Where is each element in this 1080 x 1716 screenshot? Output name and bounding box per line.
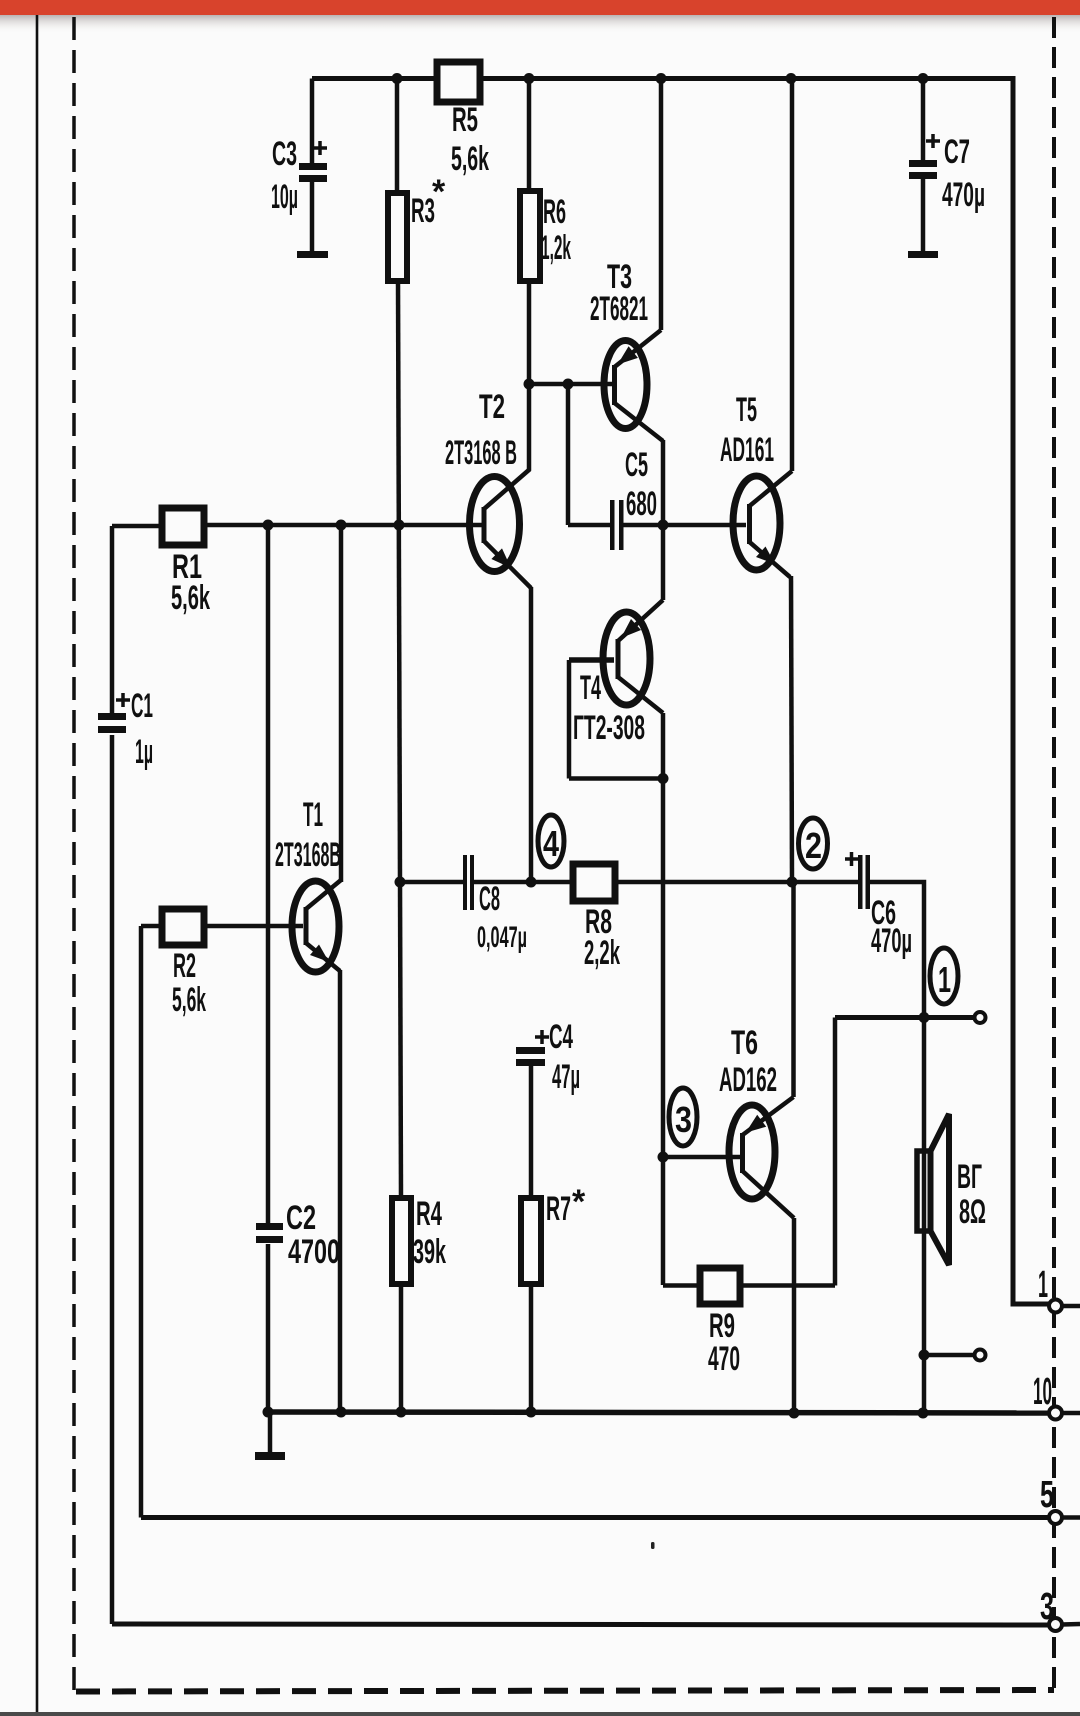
wire R9 right [741,1283,835,1288]
svg-text:T5: T5 [736,391,757,429]
svg-text:R2: R2 [173,947,196,985]
wire C8 right to R8 [474,880,572,885]
svg-text:*: * [572,1183,586,1221]
svg-text:R5: R5 [452,101,478,139]
pin 1 [1049,1300,1062,1313]
svg-text:3: 3 [675,1099,692,1140]
ground bar under C7 [908,251,938,258]
wire T4 emitter down [661,713,666,779]
svg-text:ГТ2-308: ГТ2-308 [573,709,645,747]
resistor R6 [520,191,540,281]
svg-text:R4: R4 [416,1195,442,1233]
node junction [524,379,535,390]
svg-text:C7: C7 [944,133,970,171]
wire R7 bottom [529,1284,534,1412]
capacitor C7 [909,160,937,167]
wire ground rail [268,1412,1049,1413]
wire R6 bottom to T3 base node [527,281,532,384]
svg-text:10: 10 [1033,1371,1052,1413]
svg-text:C4: C4 [549,1018,573,1056]
bottom dashed border [76,1690,1054,1692]
resistor R4 [392,1198,411,1284]
svg-text:*: * [432,173,446,211]
svg-text:T2: T2 [479,388,505,426]
svg-text:2T3168B: 2T3168B [275,836,341,874]
wire R4 bottom [399,1284,404,1412]
svg-text:470µ: 470µ [942,176,985,214]
node junction [526,877,537,888]
left solid border line [36,15,39,1716]
wire down to T6 base [661,779,666,1286]
wire C4 to R7 [529,1066,534,1199]
wire T2 collector up [527,384,532,470]
pin 3 [1049,1618,1062,1631]
wire speaker line [922,1018,927,1413]
wire R6 top [527,79,532,193]
stray mark [651,1542,655,1549]
resistor R1 [162,508,204,545]
capacitor C6 [858,855,863,909]
terminal [975,1350,986,1361]
svg-text:C8: C8 [479,880,500,918]
wire C8 left [400,880,464,885]
svg-text:T6: T6 [731,1024,758,1062]
red top bar [0,0,1080,15]
wire T4 collector up [661,525,666,600]
svg-text:1,2k: 1,2k [541,229,571,267]
svg-text:C3: C3 [272,135,297,173]
wire T5 emitter down [791,576,792,882]
node junction [919,1012,930,1023]
svg-text:ВГ: ВГ [957,1158,982,1196]
svg-text:T4: T4 [580,669,601,707]
svg-text:470µ: 470µ [871,922,912,960]
wire T1 emitter down [338,970,343,1412]
svg-text:2T3168 B: 2T3168 B [445,434,517,472]
svg-text:4700: 4700 [288,1233,340,1271]
svg-text:AD161: AD161 [720,431,774,469]
wire T1 collector up [339,525,344,882]
node junction [336,520,347,531]
svg-text:C2: C2 [286,1199,316,1237]
svg-text:AD162: AD162 [719,1061,777,1099]
wire C3 bottom [310,181,315,252]
node 4 label [538,815,564,867]
svg-text:2,2k: 2,2k [584,934,620,972]
wire top rail left segment [312,76,437,81]
wire C2 bottom [266,1244,271,1412]
wire T6 emitter down to rail [792,1218,797,1413]
svg-text:47µ: 47µ [552,1058,580,1096]
wire C1 top [110,526,115,716]
wire R8 right [616,880,858,885]
svg-text:5,6k: 5,6k [172,981,206,1019]
node junction [658,1152,669,1163]
node junction [919,1350,930,1361]
svg-text:3: 3 [1040,1586,1054,1628]
wire node3 corner to R9 [663,1283,699,1288]
wire T6 base [663,1155,740,1160]
svg-text:4: 4 [543,823,559,864]
svg-text:1: 1 [1038,1264,1048,1306]
wire C5 left [568,523,611,528]
wire rail right corner drop to pin 1 [1013,76,1049,1304]
left dashed border [72,17,76,1690]
node junction [563,379,574,390]
wire T3 collector up [659,79,664,331]
wire C1 down to pin 3 line [110,735,115,1624]
wire C2 top [266,525,271,1225]
svg-text:2: 2 [805,825,822,866]
resistor R5 [437,62,480,102]
resistor R9 [700,1268,740,1304]
svg-text:C1: C1 [131,687,153,725]
capacitor C1 [98,713,126,720]
svg-text:8Ω: 8Ω [959,1193,986,1231]
wire T4 base loop right [569,776,663,781]
wire C3 top [310,79,315,166]
svg-text:T1: T1 [303,796,323,834]
wire R3 top [395,79,400,195]
capacitor C5 [610,500,615,550]
svg-text:680: 680 [626,485,657,523]
pin 5 [1049,1511,1062,1524]
wire C7 top [921,79,926,163]
wire C5 right to T5 base [623,523,746,528]
wire top rail right segment [480,76,1013,81]
node junction [395,877,406,888]
wire T5 collector up [790,79,795,472]
speaker lower terminal wire [924,1353,974,1358]
wire pin3 line [112,1624,1049,1625]
node junction [787,877,798,888]
svg-text:C5: C5 [625,446,648,484]
svg-text:1µ: 1µ [135,733,153,771]
svg-text:5,6k: 5,6k [451,140,489,178]
wire output down to R9 [833,1018,838,1286]
svg-text:39k: 39k [413,1233,446,1271]
node 2 label [799,818,828,869]
wire pin5 line [141,1515,1049,1520]
node junction [658,520,669,531]
wire node4 to R4 [400,882,401,1198]
node junction [394,520,405,531]
wire branch down to C5 wire [566,384,571,525]
wire T3 emitter down [661,440,666,525]
wire C7 bottom [921,179,926,252]
resistor R2 [162,909,204,945]
wire R3 to node 4 [398,281,400,882]
svg-text:0,047µ: 0,047µ [477,921,527,954]
wire R2 left [141,924,161,929]
svg-text:5: 5 [1040,1474,1054,1516]
wire C6 right corner down [870,882,924,1018]
node junction [658,773,669,784]
wire T2 emitter down [529,587,534,882]
ground symbol [268,1412,273,1452]
wire T2 base (R1 to T2) [205,523,484,528]
wire output horizontal [835,1015,974,1020]
wire R2 down [139,926,144,1518]
loudspeaker BG [917,1151,931,1231]
svg-text:2T6821: 2T6821 [590,290,648,328]
svg-text:5,6k: 5,6k [171,579,210,617]
svg-text:10µ: 10µ [271,178,298,216]
capacitor C3 [299,163,327,170]
wire T1 base [205,924,303,929]
capacitor C4 [516,1047,545,1054]
wire T3 base [529,382,613,387]
output terminal [975,1012,986,1023]
shadow under red bar [0,15,1080,34]
wire T6 collector up [791,882,796,1097]
resistor R3 [388,193,407,281]
svg-text:R6: R6 [543,193,566,231]
node 1 label [930,948,958,1004]
resistor R7 [521,1198,541,1284]
wire R1 left [112,524,161,529]
node junction [263,1407,274,1418]
right dashed border [1052,17,1056,1688]
wire T4 base loop down [567,660,572,779]
capacitor C8 [463,855,467,910]
svg-text:1: 1 [938,959,951,1000]
svg-text:R7: R7 [546,1190,571,1228]
wire T4 base [569,657,614,663]
svg-text:470: 470 [708,1340,740,1378]
capacitor C2 [256,1223,283,1230]
node junction [263,520,274,531]
page bottom edge [0,1712,1080,1716]
node junction dots on rail [392,73,403,84]
node 3 label [669,1088,697,1146]
ground bar under C3 [297,251,328,258]
resistor R8 [573,864,615,901]
pin 10 [1049,1407,1062,1420]
